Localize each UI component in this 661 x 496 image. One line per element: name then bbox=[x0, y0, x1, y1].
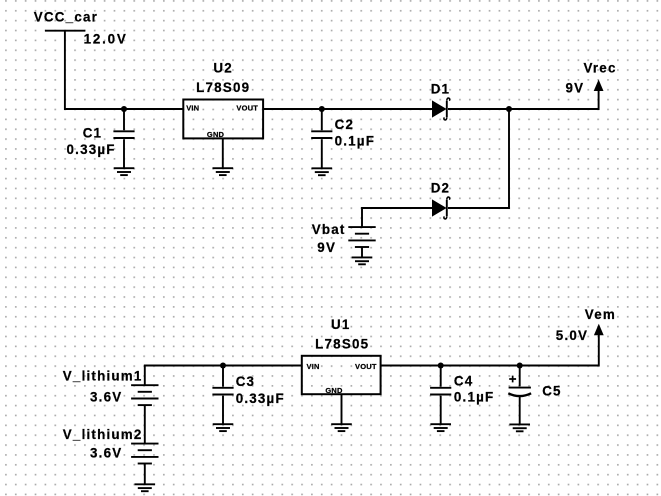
ground V_lithium2 bbox=[135, 484, 156, 491]
plus sign C5 bbox=[509, 376, 516, 383]
ground C1 bbox=[114, 168, 135, 175]
power arrow Vem bbox=[594, 324, 604, 336]
svg-text:U1: U1 bbox=[331, 317, 351, 332]
svg-text:VOUT: VOUT bbox=[236, 104, 258, 113]
svg-text:VIN: VIN bbox=[186, 104, 199, 113]
svg-text:D2: D2 bbox=[431, 180, 451, 195]
svg-text:VIN: VIN bbox=[307, 362, 320, 371]
ground C5 bbox=[509, 424, 530, 431]
wire U2 VOUT to D1 anode bbox=[263, 108, 432, 110]
wire VCC_car vertical drop bbox=[65, 31, 184, 109]
svg-text:Vbat: Vbat bbox=[312, 222, 346, 237]
ground U1 bbox=[331, 424, 352, 431]
capacitor C3 bbox=[212, 365, 233, 425]
svg-text:0.33µF: 0.33µF bbox=[67, 142, 116, 157]
capacitor C5 polarized top lead bbox=[519, 366, 521, 387]
capacitor C4 bbox=[430, 365, 451, 425]
wire U1 VOUT to Vem corner bbox=[381, 335, 599, 366]
node junction C4 bbox=[438, 362, 444, 368]
svg-text:9V: 9V bbox=[566, 81, 585, 96]
svg-text:VOUT: VOUT bbox=[355, 362, 377, 371]
svg-text:Vrec: Vrec bbox=[584, 60, 617, 75]
svg-text:C2: C2 bbox=[335, 117, 355, 132]
wire between lithium cells bbox=[144, 405, 146, 444]
svg-text:L78S05: L78S05 bbox=[315, 336, 369, 351]
svg-text:3.6V: 3.6V bbox=[90, 446, 122, 461]
wire Vbat to D2 anode bbox=[362, 208, 433, 227]
svg-text:C3: C3 bbox=[236, 374, 256, 389]
svg-text:3.6V: 3.6V bbox=[90, 390, 122, 405]
battery Vbat bbox=[348, 227, 375, 247]
diode D1 bbox=[432, 98, 450, 120]
diode D2 bbox=[432, 197, 450, 219]
capacitor C5 top plate bbox=[509, 387, 531, 389]
wire D1 cathode to Vrec corner bbox=[448, 90, 599, 109]
svg-text:V_lithium2: V_lithium2 bbox=[63, 427, 143, 442]
svg-text:0.1µF: 0.1µF bbox=[335, 133, 376, 148]
regulator U1 box L78S05 bbox=[302, 356, 381, 394]
ground U2 bbox=[213, 168, 234, 175]
wire U1 GND pin bbox=[341, 394, 343, 424]
node junction C5 bbox=[517, 362, 523, 368]
svg-text:D1: D1 bbox=[431, 81, 451, 96]
wire V_lithium2 bottom lead bbox=[144, 464, 146, 485]
capacitor C5 curved plate bbox=[508, 393, 531, 396]
power symbol VCC_car bar bbox=[45, 30, 85, 32]
wire diode junction vertical bbox=[448, 109, 509, 208]
node junction C2 bbox=[319, 106, 325, 112]
svg-text:9V: 9V bbox=[317, 240, 336, 255]
node junction diodes bbox=[506, 106, 512, 112]
power arrow Vrec bbox=[594, 80, 604, 92]
svg-text:12.0V: 12.0V bbox=[84, 32, 128, 47]
svg-text:C4: C4 bbox=[454, 374, 474, 389]
ground C3 bbox=[213, 424, 234, 431]
wire Vbat bottom lead bbox=[361, 247, 363, 257]
svg-text:V_lithium1: V_lithium1 bbox=[63, 369, 143, 384]
svg-text:Vem: Vem bbox=[585, 307, 616, 322]
capacitor C2 bbox=[311, 109, 332, 169]
ground C2 bbox=[312, 168, 333, 175]
svg-text:L78S09: L78S09 bbox=[196, 80, 250, 95]
capacitor C5 bottom lead bbox=[519, 396, 521, 424]
svg-text:0.1µF: 0.1µF bbox=[454, 390, 495, 405]
regulator U2 box L78S09 bbox=[183, 100, 263, 139]
battery V_lithium1 bbox=[131, 385, 158, 405]
node junction C3 bbox=[220, 362, 226, 368]
svg-text:C5: C5 bbox=[542, 383, 562, 398]
svg-text:5.0V: 5.0V bbox=[556, 328, 588, 343]
node junction C1 bbox=[121, 106, 127, 112]
wire U2 GND pin bbox=[222, 138, 224, 168]
ground Vbat bbox=[352, 257, 373, 264]
svg-text:GND: GND bbox=[325, 386, 343, 395]
battery V_lithium2 bbox=[131, 444, 158, 464]
wire battery V_lithium1 to U1 VIN bbox=[145, 366, 302, 386]
svg-text:VCC_car: VCC_car bbox=[34, 10, 98, 25]
svg-text:U2: U2 bbox=[213, 60, 233, 75]
capacitor C1 bbox=[113, 109, 134, 169]
ground C4 bbox=[430, 424, 451, 431]
svg-text:GND: GND bbox=[207, 130, 225, 139]
svg-text:0.33µF: 0.33µF bbox=[236, 391, 285, 406]
svg-text:C1: C1 bbox=[83, 126, 103, 141]
